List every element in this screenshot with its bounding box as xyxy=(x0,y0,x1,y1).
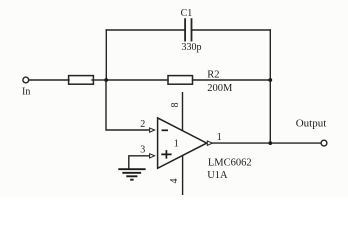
terminal Output xyxy=(321,140,327,146)
svg-text:330p: 330p xyxy=(182,42,202,53)
wire top left segment to C1 xyxy=(106,29,185,31)
resistor R2 xyxy=(168,76,193,85)
wire R2 to node B xyxy=(193,79,271,81)
svg-text:1: 1 xyxy=(174,139,179,150)
svg-text:8: 8 xyxy=(170,103,181,108)
svg-text:3: 3 xyxy=(140,145,145,156)
wire In terminal to R1 xyxy=(29,79,69,81)
svg-text:2: 2 xyxy=(140,119,145,130)
junction node A xyxy=(104,78,108,82)
wire pin 3 to ground xyxy=(129,156,150,169)
terminal In xyxy=(23,77,29,83)
svg-text:R2: R2 xyxy=(207,70,219,81)
svg-text:4: 4 xyxy=(169,179,180,184)
pin 4 power stub xyxy=(182,156,184,196)
op-amp plus input symbol xyxy=(161,150,171,159)
wire node A up to C1 branch xyxy=(105,30,107,80)
wire node A down to pin 2 xyxy=(106,80,150,130)
pin marker pin 3 xyxy=(150,154,155,158)
junction node B xyxy=(268,78,272,82)
op-amp minus input symbol xyxy=(162,129,168,131)
svg-text:In: In xyxy=(22,87,30,98)
op-amp U1A xyxy=(158,118,207,168)
pin marker pin 2 xyxy=(150,128,155,132)
svg-text:Output: Output xyxy=(296,118,327,130)
svg-text:1: 1 xyxy=(217,132,222,143)
output wire pin 1 to Output terminal xyxy=(212,142,321,144)
svg-text:LMC6062: LMC6062 xyxy=(208,157,252,168)
ground xyxy=(118,169,145,180)
wire R1 to node A xyxy=(92,79,106,81)
capacitor C1 xyxy=(185,19,191,40)
pin 8 power stub xyxy=(182,92,184,131)
wire C1 to top right corner xyxy=(192,29,271,31)
wire node A to R2 xyxy=(106,79,168,81)
svg-text:200M: 200M xyxy=(207,83,233,94)
svg-text:U1A: U1A xyxy=(207,170,228,181)
wire right vertical node B to output node xyxy=(269,30,271,143)
svg-text:C1: C1 xyxy=(181,8,193,19)
junction output node xyxy=(268,141,272,145)
resistor R1 xyxy=(69,76,94,85)
pin marker pin 1 output xyxy=(207,141,212,145)
